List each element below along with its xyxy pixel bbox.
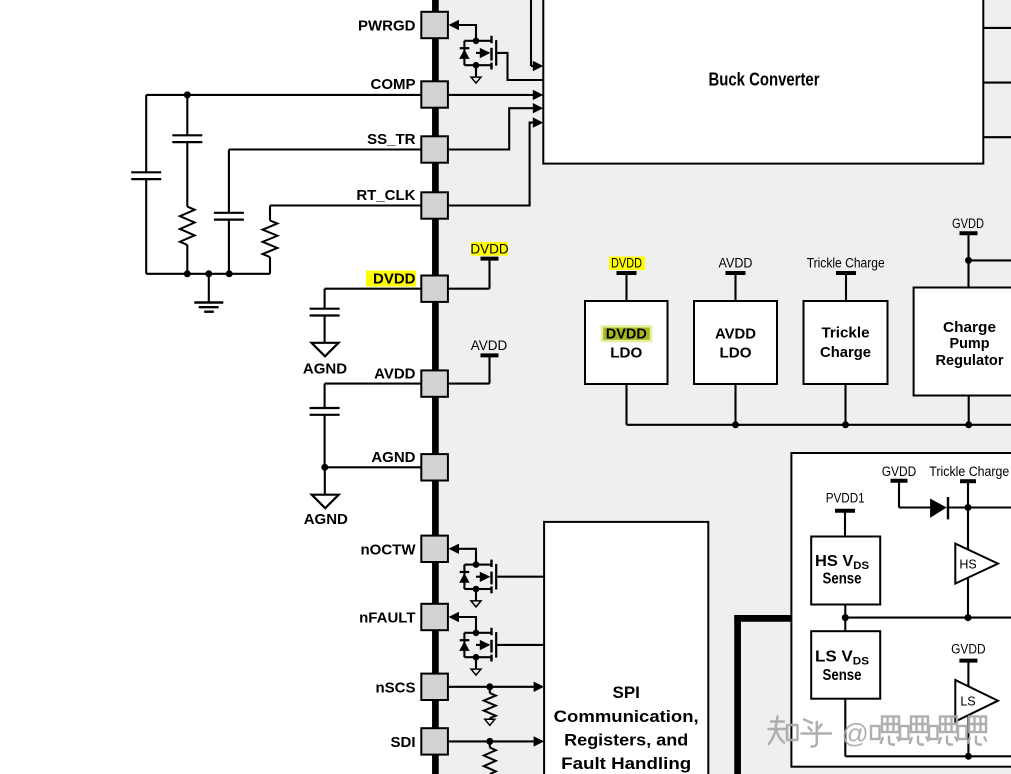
svg-text:DVDD: DVDD — [606, 326, 647, 343]
svg-text:Charge: Charge — [820, 344, 871, 361]
svg-text:HS: HS — [959, 558, 976, 572]
svg-text:PVDD1: PVDD1 — [826, 491, 865, 506]
svg-text:COMP: COMP — [371, 76, 416, 93]
svg-text:LDO: LDO — [720, 344, 752, 361]
svg-text:Registers, and: Registers, and — [564, 730, 688, 749]
svg-text:nSCS: nSCS — [375, 679, 415, 696]
svg-text:SDI: SDI — [390, 734, 415, 751]
svg-text:DVDD: DVDD — [611, 256, 642, 271]
svg-text:AVDD: AVDD — [715, 326, 756, 343]
svg-text:AGND: AGND — [304, 511, 348, 528]
svg-text:Sense: Sense — [823, 571, 862, 588]
svg-text:Trickle: Trickle — [822, 325, 870, 342]
svg-text:AGND: AGND — [303, 361, 347, 378]
svg-text:Regulator: Regulator — [936, 352, 1004, 369]
svg-text:Fault Handling: Fault Handling — [561, 754, 691, 773]
svg-text:SPI: SPI — [612, 683, 639, 702]
svg-text:GVDD: GVDD — [951, 642, 986, 657]
svg-text:Buck Converter: Buck Converter — [709, 70, 820, 90]
svg-text:SS_TR: SS_TR — [367, 131, 416, 148]
svg-text:Trickle Charge: Trickle Charge — [807, 256, 885, 271]
svg-text:Sense: Sense — [823, 667, 862, 684]
svg-text:GVDD: GVDD — [882, 464, 917, 479]
svg-text:Trickle Charge: Trickle Charge — [929, 464, 1009, 479]
svg-text:AVDD: AVDD — [719, 256, 753, 271]
svg-text:LDO: LDO — [610, 344, 642, 361]
svg-text:Communication,: Communication, — [554, 707, 699, 726]
svg-text:AVDD: AVDD — [471, 338, 508, 353]
svg-text:DVDD: DVDD — [470, 242, 509, 257]
svg-text:Pump: Pump — [950, 335, 990, 352]
svg-text:nFAULT: nFAULT — [359, 610, 415, 627]
svg-text:@: @ — [842, 719, 869, 749]
svg-text:AVDD: AVDD — [374, 365, 416, 382]
svg-text:DVDD: DVDD — [373, 270, 416, 287]
svg-text:AGND: AGND — [371, 449, 415, 466]
svg-text:LS: LS — [960, 695, 975, 709]
svg-text:RT_CLK: RT_CLK — [356, 187, 415, 204]
svg-text:Charge: Charge — [943, 319, 996, 336]
svg-text:GVDD: GVDD — [952, 216, 984, 231]
svg-text:PWRGD: PWRGD — [358, 18, 416, 35]
svg-text:nOCTW: nOCTW — [361, 541, 417, 558]
